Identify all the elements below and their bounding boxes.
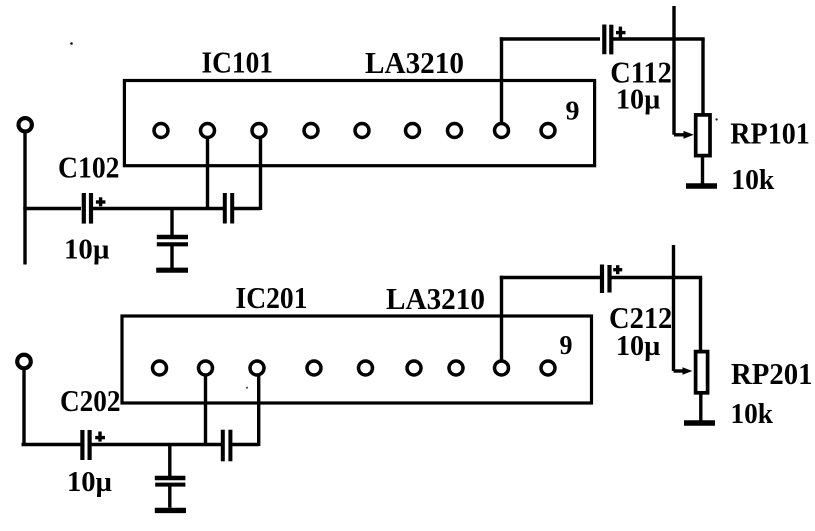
svg-text:10µ: 10µ [616,330,661,362]
svg-text:10µ: 10µ [64,234,110,266]
svg-text:10µ: 10µ [616,84,661,116]
svg-text:C102: C102 [58,150,120,185]
svg-text:IC101: IC101 [202,45,274,80]
svg-text:10µ: 10µ [67,466,112,498]
svg-text:9: 9 [566,96,580,126]
svg-text:RP201: RP201 [731,356,813,391]
svg-text:10k: 10k [731,164,775,196]
svg-text:C202: C202 [60,383,121,418]
svg-text:LA3210: LA3210 [365,45,464,80]
svg-text:9: 9 [560,330,573,360]
svg-text:IC201: IC201 [236,280,308,315]
svg-text:RP101: RP101 [730,116,810,151]
svg-text:10k: 10k [731,398,774,430]
svg-text:LA3210: LA3210 [386,281,485,316]
